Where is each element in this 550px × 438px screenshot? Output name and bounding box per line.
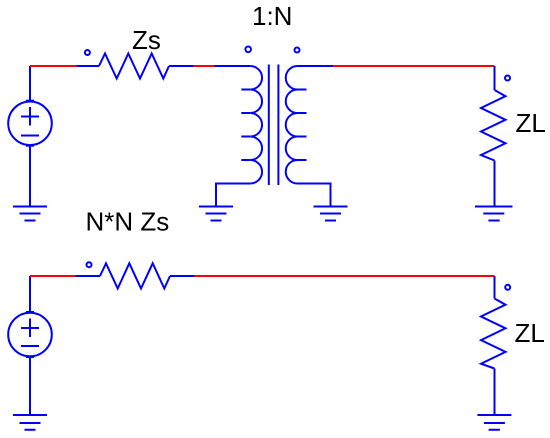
node secondary dot xyxy=(295,48,300,53)
wire net1 red xyxy=(30,65,76,67)
wire secondary top stub xyxy=(298,65,334,67)
wire net2 red xyxy=(194,65,215,67)
voltage source V2 circle xyxy=(8,313,52,357)
transformer T1 primary winding xyxy=(250,66,262,184)
V2 bottom pin tick xyxy=(26,356,34,358)
wire primary bottom xyxy=(216,184,250,206)
V1 bottom pin tick xyxy=(26,145,34,147)
node primary dot xyxy=(245,47,251,53)
wire ZL2 bottom lead xyxy=(494,369,496,415)
resistor Zs xyxy=(99,54,169,79)
wire N*N Zs right stub xyxy=(170,275,194,277)
V2 top pin tick xyxy=(26,311,34,313)
transformer T1 secondary winding xyxy=(286,66,298,184)
svg-text:ZL: ZL xyxy=(515,318,545,348)
wire ZL2 top lead xyxy=(494,276,496,299)
ground G1 xyxy=(13,207,47,221)
voltage source V1 circle xyxy=(8,102,52,146)
wire ZL bottom lead xyxy=(494,161,496,206)
wire net5 red xyxy=(194,275,494,277)
svg-text:ZL: ZL xyxy=(516,108,546,138)
node ZL2 dot xyxy=(505,285,510,290)
resistor N*N Zs xyxy=(100,263,170,288)
ground G2 xyxy=(199,207,233,221)
resistor ZL bottom xyxy=(481,299,506,369)
ground G3 xyxy=(314,207,348,221)
svg-text:Zs: Zs xyxy=(132,25,161,55)
V1 top pin tick xyxy=(26,100,34,102)
V1 minus bar xyxy=(21,135,39,137)
V2 minus bar xyxy=(21,345,39,347)
V2 plus sign xyxy=(21,319,39,338)
wire secondary bottom xyxy=(298,184,331,206)
resistor ZL top xyxy=(481,90,506,161)
wire N*N Zs left stub xyxy=(76,275,101,277)
V1 plus sign xyxy=(21,107,39,126)
wire V1 top pin xyxy=(29,66,31,101)
wire ZL top lead xyxy=(494,66,496,90)
ground G6 xyxy=(477,415,511,430)
ground G5 xyxy=(13,415,47,430)
wire V2 top pin xyxy=(29,276,31,312)
secondary winding ticks xyxy=(298,90,307,161)
wire net3 red xyxy=(333,65,494,67)
wire Zs left stub xyxy=(76,65,99,67)
node ZL dot xyxy=(505,76,510,81)
wire Zs right stub xyxy=(169,65,194,67)
wire net4 red xyxy=(30,275,76,277)
transformer core lines xyxy=(269,65,279,186)
node B pin dot xyxy=(87,262,92,267)
ground G4 xyxy=(475,207,513,221)
wire xfmr primary top stub xyxy=(215,65,251,67)
svg-text:1:N: 1:N xyxy=(252,1,292,31)
wire V1 bottom pin xyxy=(29,146,31,206)
wire V2 bottom pin xyxy=(29,357,31,414)
svg-text:N*N Zs: N*N Zs xyxy=(86,206,170,236)
node A pin dot xyxy=(85,50,90,55)
primary winding ticks xyxy=(241,90,250,161)
